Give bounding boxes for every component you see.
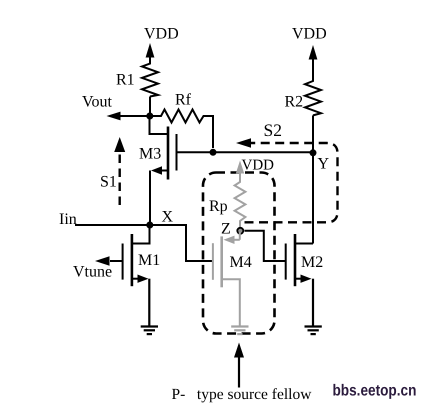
power VDD arrow (left) — [146, 43, 155, 63]
M1 gate wire with Vtune arrow — [95, 256, 123, 266]
transistor M3 — [150, 116, 177, 180]
node junction Rf / M3 gate wire — [210, 149, 217, 156]
ground (M2) — [305, 327, 322, 335]
wire node X to M4 gate — [150, 225, 213, 261]
wire M3 gate to node Y — [177, 151, 314, 153]
svg-text:M1: M1 — [138, 252, 160, 269]
wire Iin to node X — [75, 224, 150, 226]
node junction R1/Vout/Rf — [146, 113, 153, 120]
svg-text:Vout: Vout — [82, 94, 112, 111]
wire M3 source down to node X — [149, 171, 151, 226]
svg-text:P- type source fellow: P- type source fellow — [172, 386, 313, 403]
svg-text:M3: M3 — [139, 146, 161, 163]
svg-text:Rp: Rp — [209, 198, 228, 215]
svg-text:Vtune: Vtune — [73, 264, 112, 281]
svg-text:Rf: Rf — [175, 92, 192, 109]
resistor Rf — [150, 110, 213, 149]
dashed box: P-type source follower — [203, 173, 275, 334]
power VDD arrow (right) — [309, 45, 318, 80]
S1 dashed feedback arrow — [114, 137, 125, 205]
wire R1 to node — [149, 97, 151, 117]
transistor M1 — [123, 225, 150, 326]
svg-text:M2: M2 — [301, 254, 323, 271]
wire node Z to M2 gate — [245, 231, 286, 261]
svg-text:S2: S2 — [264, 120, 282, 140]
svg-text:Iin: Iin — [59, 211, 77, 228]
svg-text:S1: S1 — [100, 174, 117, 191]
svg-text:Y: Y — [318, 156, 330, 173]
ground (M4, gray) — [231, 327, 248, 335]
Vout arrow — [107, 112, 150, 121]
svg-text:VDD: VDD — [292, 26, 327, 43]
ground (M1) — [141, 327, 158, 335]
resistor R2 — [305, 80, 321, 116]
svg-text:Z: Z — [221, 221, 231, 238]
transistor M4 (gray) — [213, 232, 240, 326]
wire R2 to node Y — [312, 115, 314, 152]
svg-text:X: X — [162, 209, 174, 226]
power VDD arrow (inner, gray) — [236, 161, 244, 182]
svg-text:VDD: VDD — [242, 158, 275, 174]
resistor Rp (gray) — [235, 180, 246, 228]
svg-text:VDD: VDD — [144, 26, 179, 43]
svg-text:R2: R2 — [285, 94, 304, 111]
node X — [146, 222, 153, 229]
S2 dashed feedback hook — [236, 138, 338, 222]
svg-text:R1: R1 — [116, 72, 135, 89]
node Y — [310, 149, 317, 156]
svg-text:M4: M4 — [230, 254, 252, 271]
wire node Y to M2 drain — [312, 152, 314, 243]
arrow pointing to dashed box — [234, 343, 244, 388]
resistor R1 — [142, 62, 158, 97]
node Z — [237, 228, 243, 234]
svg-text:bbs.eetop.cn: bbs.eetop.cn — [333, 383, 417, 400]
transistor M2 — [286, 234, 313, 326]
